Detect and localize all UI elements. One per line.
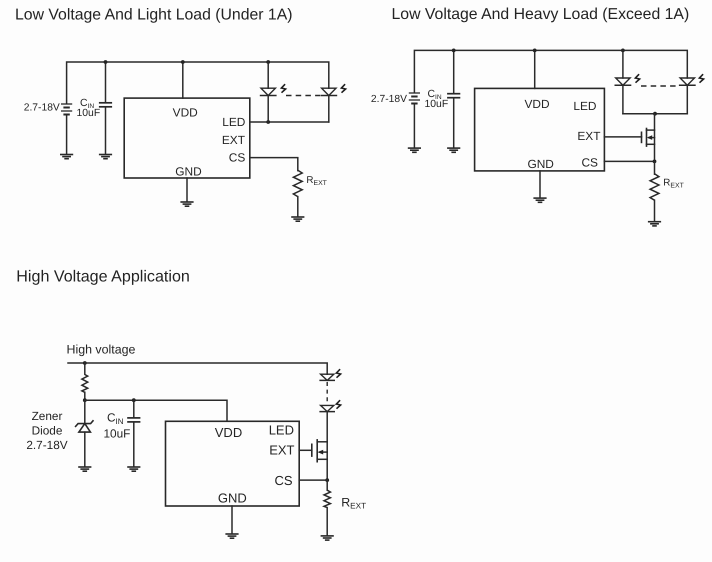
svg-text:CS: CS (229, 150, 246, 164)
svg-text:2.7-18V: 2.7-18V (371, 94, 407, 105)
svg-text:EXT: EXT (269, 442, 294, 457)
svg-text:10uF: 10uF (77, 108, 101, 119)
svg-text:CS: CS (581, 155, 598, 169)
svg-text:VDD: VDD (215, 425, 242, 440)
svg-text:REXT: REXT (663, 177, 684, 189)
svg-text:Diode: Diode (32, 424, 63, 438)
svg-text:EXT: EXT (577, 129, 600, 143)
svg-text:GND: GND (527, 157, 554, 171)
svg-text:2.7-18V: 2.7-18V (24, 103, 60, 114)
svg-text:EXT: EXT (222, 133, 245, 147)
svg-text:Zener: Zener (32, 409, 63, 423)
svg-text:LED: LED (269, 423, 294, 438)
svg-text:REXT: REXT (341, 495, 366, 510)
svg-text:REXT: REXT (306, 175, 327, 187)
svg-text:GND: GND (218, 491, 247, 506)
svg-text:GND: GND (175, 165, 202, 179)
svg-text:CS: CS (274, 473, 292, 488)
svg-text:Low Voltage And Light Load (Un: Low Voltage And Light Load (Under 1A) (15, 7, 293, 24)
svg-text:10uF: 10uF (104, 427, 131, 441)
svg-text:High Voltage Application: High Voltage Application (16, 268, 190, 286)
svg-text:10uF: 10uF (425, 99, 449, 110)
svg-text:2.7-18V: 2.7-18V (26, 438, 67, 452)
svg-text:Low Voltage And Heavy Load (Ex: Low Voltage And Heavy Load (Exceed 1A) (392, 6, 690, 23)
svg-text:VDD: VDD (524, 97, 550, 111)
svg-text:VDD: VDD (173, 106, 199, 120)
svg-text:High voltage: High voltage (67, 343, 136, 357)
svg-text:CIN: CIN (107, 411, 124, 426)
svg-text:LED: LED (573, 99, 597, 113)
svg-text:LED: LED (222, 115, 246, 129)
